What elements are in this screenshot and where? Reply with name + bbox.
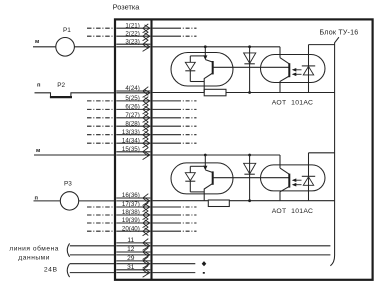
- node junction bottomrail-diode B: [248, 199, 251, 202]
- label линия обмена данными: [9, 245, 59, 262]
- connector pin 16(36): [116, 192, 150, 205]
- svg-text:м: м: [35, 39, 39, 45]
- connector and block frame: [115, 19, 373, 279]
- connector pin 7(27): [87, 112, 197, 122]
- connector pin 20(40): [87, 225, 197, 235]
- connector pin 6(26): [87, 104, 197, 114]
- svg-text:п: п: [37, 82, 41, 88]
- wire P3 to connector pin 16(36): [79, 200, 115, 202]
- wire data pin 11 to break line: [153, 245, 331, 247]
- svg-text:АОТ 101АС: АОТ 101АС: [272, 100, 314, 107]
- connector pin 11: [116, 237, 150, 250]
- output LED DA.2: [302, 45, 315, 93]
- LED DB.1 inside optocoupler: [185, 166, 205, 192]
- wire 24V pin 31 stub: [153, 272, 205, 274]
- LED DA.1 inside optocoupler: [185, 56, 205, 82]
- node junction rail-collector B: [204, 154, 207, 157]
- break line (schematic continues): [330, 37, 339, 266]
- wire from м to relay P1: [33, 46, 56, 48]
- svg-text:P1: P1: [63, 27, 71, 34]
- wire data line to pin 11: [70, 245, 115, 247]
- connector pin 3(23): [116, 38, 150, 51]
- svg-text:АОТ 101АС: АОТ 101АС: [272, 208, 314, 215]
- wire LED output to break line B: [309, 152, 335, 154]
- protection diode VDA: [244, 47, 256, 93]
- wire collector drop with arrow A: [203, 47, 212, 62]
- connector pin 5(25): [87, 95, 197, 105]
- connector pin 8(28): [87, 120, 197, 130]
- optocoupler UA.1 body: [171, 53, 233, 87]
- wire bottom rail A: [153, 92, 335, 94]
- connector pin 18(38): [87, 209, 197, 219]
- connector pin 29: [116, 255, 150, 268]
- connector pin 31: [116, 264, 150, 277]
- wire top rail from pin to optocouplers A: [153, 46, 280, 48]
- node junction rail-collector A: [204, 45, 207, 48]
- connector pin 2(22): [87, 30, 197, 40]
- wire top rail from pin to optocouplers B: [153, 154, 280, 156]
- optocoupler UB.1 body: [171, 163, 233, 194]
- wire 24V to pin 29: [70, 263, 115, 265]
- wire 24V pin 29 stub: [153, 261, 207, 266]
- wire data line to pin 12: [70, 254, 115, 256]
- svg-text:24В: 24В: [44, 266, 58, 273]
- svg-text:линия обмена: линия обмена: [9, 245, 59, 253]
- svg-text:м: м: [36, 148, 40, 154]
- svg-text:P2: P2: [57, 82, 65, 89]
- svg-text:данными: данными: [18, 255, 50, 262]
- wire P1 to connector pin 3(23): [74, 46, 114, 48]
- connector pin 14(34): [87, 137, 197, 147]
- resistor RA: [204, 89, 226, 96]
- wire collector drop with arrow B: [203, 155, 212, 172]
- phototransistor VTB.2: [280, 155, 289, 201]
- wire LED output to break line A: [309, 44, 335, 46]
- wire bottom rail B: [153, 200, 335, 202]
- connector pin 4(24): [116, 85, 150, 97]
- wire link between transistor bases B: [213, 177, 290, 179]
- phototransistor VTA.2: [280, 47, 289, 93]
- svg-text:Розетка: Розетка: [113, 3, 141, 12]
- wire data pin 12 to break line: [153, 254, 331, 256]
- light arrows A: [292, 68, 302, 76]
- svg-text:P3: P3: [64, 181, 72, 188]
- output LED DB.2: [302, 153, 315, 201]
- phototransistor VTA.1: [204, 61, 213, 93]
- phototransistor VTB.1: [204, 171, 213, 200]
- brace data lines: [67, 243, 69, 256]
- connector pin 13(33): [87, 129, 197, 139]
- connector pin 15(35): [116, 146, 150, 160]
- resistor RB: [208, 200, 229, 207]
- optocoupler UA.2 body: [261, 55, 326, 83]
- connector pin 19(39): [87, 217, 197, 227]
- node junction rail-diode A: [248, 45, 251, 48]
- optocoupler UB.2 body: [261, 165, 326, 191]
- svg-text:Блок ТУ-16: Блок ТУ-16: [320, 29, 359, 37]
- connector pin 17(37): [87, 201, 197, 211]
- connector pin 1(21): [87, 22, 197, 32]
- light arrows B: [292, 178, 302, 186]
- relay coil P1: [56, 27, 75, 56]
- brace 24V lines: [67, 264, 69, 277]
- node junction rail-diode B: [248, 154, 251, 157]
- wire link between transistor bases A: [213, 66, 290, 68]
- node junction bottomrail-diode A: [248, 91, 251, 94]
- contact P2: [35, 82, 115, 97]
- wire 24V to pin 31: [70, 272, 115, 274]
- relay coil P3: [60, 181, 78, 210]
- protection diode VDB: [244, 155, 256, 201]
- wire м to connector pin 15(35): [34, 154, 114, 156]
- wire п to relay P3: [34, 200, 61, 202]
- connector pin 12: [116, 246, 150, 259]
